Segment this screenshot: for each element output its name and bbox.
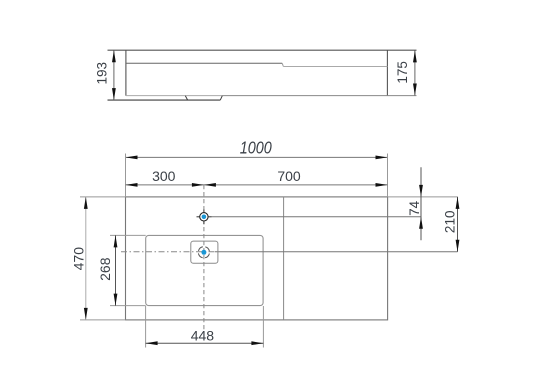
svg-text:300: 300 xyxy=(152,168,176,184)
dim 193 arrow up xyxy=(112,50,116,62)
faucet leader line xyxy=(212,216,422,218)
svg-text:210: 210 xyxy=(442,211,457,234)
dim 1000 line xyxy=(126,156,388,158)
svg-text:470: 470 xyxy=(71,247,87,271)
side view right edge xyxy=(386,50,388,95)
dim 700 arrow right xyxy=(376,183,388,187)
dim 210 arrow down xyxy=(456,240,460,252)
dim 74 arrow down (above top edge) xyxy=(419,185,423,197)
448 extension right xyxy=(262,306,264,348)
plan view outer rect xyxy=(126,197,388,320)
plan top edge right extension xyxy=(388,196,458,198)
side view left edge xyxy=(125,50,127,95)
drain square xyxy=(191,241,218,263)
dim 74 arrow up (below faucet line) xyxy=(419,217,423,229)
dim 193 line xyxy=(113,50,115,100)
dim 1000 arrow left xyxy=(126,156,138,160)
side view inner ledge step xyxy=(282,63,283,66)
plan divider line xyxy=(283,197,285,320)
dim 175 line xyxy=(414,50,416,95)
side view bottom deep (basin bulge) line with left extension xyxy=(108,99,221,101)
dim junction arrow pointing right xyxy=(192,183,204,187)
448 extension left xyxy=(145,306,147,348)
dim 470 arrow up xyxy=(84,197,88,209)
drain blue dot xyxy=(201,250,206,255)
dim 268 arrow down xyxy=(114,294,118,306)
dim ext right vertical xyxy=(387,154,389,197)
dim junction arrow pointing left xyxy=(204,183,216,187)
dim 448 line xyxy=(146,342,264,344)
dim 300 arrow left xyxy=(126,183,138,187)
side view bulge left slope xyxy=(185,96,187,100)
dim 268 line xyxy=(115,235,117,305)
svg-text:268: 268 xyxy=(97,257,113,281)
dim 74 line xyxy=(420,167,422,240)
svg-text:175: 175 xyxy=(395,61,410,84)
faucet hole circle xyxy=(200,213,208,221)
side view bulge right slope xyxy=(220,96,222,100)
vertical dashed centerline xyxy=(203,185,205,330)
svg-text:193: 193 xyxy=(95,62,110,85)
dim 193 arrow down xyxy=(112,88,116,100)
dim ext left vertical xyxy=(125,154,127,197)
svg-text:448: 448 xyxy=(191,328,215,344)
dim 470 line xyxy=(85,197,87,320)
side view inner ledge line left (dark) xyxy=(126,62,282,64)
dim 210 arrow up xyxy=(456,197,460,209)
faucet hole crosshair xyxy=(197,216,212,218)
dim 470 arrow down xyxy=(84,308,88,320)
dim 175 arrow up xyxy=(413,50,417,62)
dim 1000 arrow right xyxy=(376,156,388,160)
dim 448 arrow right xyxy=(251,341,263,345)
svg-text:1000: 1000 xyxy=(240,138,272,158)
basin 268 extension top xyxy=(110,234,146,236)
basin rounded rect xyxy=(146,235,263,305)
dim 448 arrow left xyxy=(146,341,158,345)
faucet hole blue dot xyxy=(202,215,207,220)
horizontal drain centerline dash-dot xyxy=(121,251,215,253)
svg-text:74: 74 xyxy=(407,200,422,216)
side view top edge with extension lines xyxy=(108,49,417,51)
side view bottom light line xyxy=(126,95,222,97)
dim 268 arrow up xyxy=(114,235,118,247)
basin 268 extension bottom xyxy=(110,305,146,307)
plan top edge left extension xyxy=(80,196,126,198)
dim 210 line xyxy=(457,197,459,252)
side view inner ledge line right (light) xyxy=(283,66,387,68)
drain dashed circle xyxy=(198,247,209,258)
svg-text:700: 700 xyxy=(277,168,301,184)
drain leader line solid xyxy=(215,251,458,253)
dim 300/700 line xyxy=(126,184,388,186)
plan bottom edge left extension xyxy=(80,319,126,321)
dim 175 arrow down xyxy=(413,84,417,96)
